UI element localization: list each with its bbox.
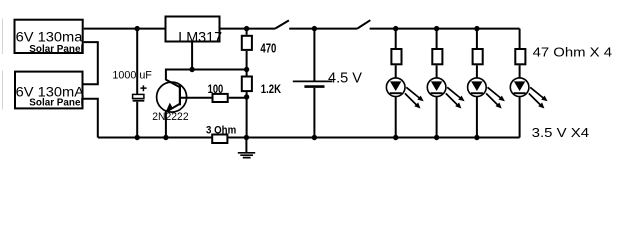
wire top rail segment 1 [84, 28, 275, 30]
svg-text:47 Ohm X 4: 47 Ohm X 4 [533, 44, 612, 59]
transistor Q1 2N2222 [152, 80, 188, 123]
node bottom rail battery junction [312, 135, 317, 140]
wire bottom rail segment 2 [227, 137, 519, 139]
resistor R1 470 [242, 29, 277, 70]
resistor R3 100 [208, 84, 228, 102]
svg-text:470: 470 [260, 41, 276, 55]
wire base resistor to node [229, 97, 247, 99]
svg-text:LM317: LM317 [178, 30, 222, 46]
LED branch D4 with resistor [510, 29, 547, 138]
svg-text:Solar Panel: Solar Panel [29, 97, 83, 108]
wire bottom rail segment 1 [98, 137, 212, 139]
resistor R2 1.2K [242, 70, 282, 138]
svg-text:100: 100 [208, 84, 224, 96]
svg-text:3.5 V X4: 3.5 V X4 [532, 125, 589, 140]
svg-text:1.2K: 1.2K [261, 84, 282, 96]
node top rail D1 junction [393, 26, 398, 31]
regulator U1 LM317 [166, 17, 223, 47]
node bottom rail capacitor junction [135, 135, 140, 140]
wire panel2 negative to bottom rail [84, 99, 98, 138]
node top rail D2 junction [434, 26, 439, 31]
resistor R4 3 Ohm [206, 125, 236, 144]
solar panel P2 [15, 72, 84, 109]
svg-text:6V 130ma: 6V 130ma [16, 30, 83, 45]
battery BT1 4.5V [293, 29, 362, 138]
node bottom rail ground junction [244, 135, 249, 140]
svg-text:2N2222: 2N2222 [152, 111, 188, 123]
node bottom rail D1 junction [393, 135, 398, 140]
switch SW1 [275, 20, 289, 28]
node bottom rail D3 junction [474, 135, 479, 140]
LED branch D3 with resistor [468, 29, 505, 138]
node top rail 470 junction [244, 26, 249, 31]
svg-text:Solar Panel: Solar Panel [29, 44, 83, 55]
node bottom rail emitter junction [163, 135, 168, 140]
svg-text:4.5 V: 4.5 V [328, 70, 362, 86]
LED branch D1 with resistor [386, 29, 423, 138]
wire panel series link [84, 42, 98, 84]
node top rail capacitor junction [135, 26, 140, 31]
LED branch D2 with resistor [427, 29, 464, 138]
node adj 1.2K junction [244, 67, 249, 72]
node bottom rail D2 junction [434, 135, 439, 140]
capacitor C1 1000uF [112, 29, 152, 138]
switch SW2 [357, 20, 370, 28]
node adj junction [189, 67, 194, 72]
node top rail battery junction [312, 26, 317, 31]
wire base [180, 97, 212, 99]
wire adj node horizontal [166, 69, 247, 71]
solar panel P1 [15, 20, 84, 55]
svg-text:3 Ohm: 3 Ohm [206, 125, 236, 137]
node base junction [244, 94, 249, 99]
node top rail D3 junction [474, 26, 479, 31]
wire emitter to bottom rail [165, 111, 167, 137]
svg-text:1000 uF: 1000 uF [112, 69, 152, 81]
wire top rail segment 2 [289, 28, 357, 30]
wire LM317 adj pin [191, 42, 193, 70]
wire top rail segment 3 [370, 28, 520, 30]
ground [238, 138, 255, 158]
wire collector riser [165, 69, 167, 81]
